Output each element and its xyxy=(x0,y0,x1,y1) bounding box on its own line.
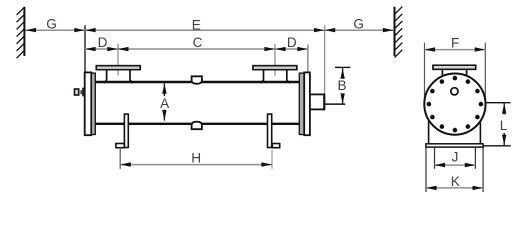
dimension J xyxy=(435,150,476,168)
nozzle N2 flange xyxy=(253,66,297,70)
svg-text:C: C xyxy=(193,35,203,50)
extension line L top xyxy=(486,102,511,104)
bolt holes xyxy=(427,76,484,133)
support leg right xyxy=(268,114,272,147)
left end flange xyxy=(85,72,92,135)
extension line F right xyxy=(484,43,486,102)
drain fitting head xyxy=(75,89,79,95)
tube sheet circle xyxy=(424,74,485,135)
extension line K right xyxy=(482,147,484,192)
coupling lug top xyxy=(192,76,202,84)
dimension F xyxy=(425,35,486,51)
svg-text:D: D xyxy=(287,35,297,50)
svg-text:J: J xyxy=(452,150,459,165)
stub centerline xyxy=(324,103,346,105)
right tube sheet xyxy=(299,73,304,134)
saddle sides end view xyxy=(429,112,481,144)
wall left xyxy=(23,7,25,56)
centerline nozzle N2 xyxy=(274,44,276,76)
dimension A xyxy=(160,83,170,120)
nozzle N2 neck xyxy=(261,70,290,84)
base plate end view xyxy=(426,144,483,147)
extension line L bottom xyxy=(483,145,510,147)
support leg left xyxy=(124,114,128,147)
support foot left xyxy=(116,144,124,148)
svg-text:G: G xyxy=(46,17,57,32)
wall left hatching xyxy=(17,7,25,58)
stub nozzle xyxy=(310,94,324,109)
extension line right stub end xyxy=(324,25,326,94)
extension line H left xyxy=(119,149,121,169)
shell top line xyxy=(96,81,300,83)
support foot right xyxy=(272,144,279,148)
coupling lug bottom xyxy=(192,122,202,130)
extension line J left xyxy=(434,147,436,169)
svg-text:D: D xyxy=(98,35,108,50)
extension line H right xyxy=(271,150,273,169)
wall right hatching xyxy=(395,7,403,58)
nozzle N1 flange xyxy=(96,66,140,70)
centerline nozzle N1 xyxy=(117,44,119,76)
dimension G right xyxy=(325,17,394,33)
dimension D right xyxy=(275,35,308,51)
drain fitting neck xyxy=(81,90,82,94)
dimension E xyxy=(85,18,325,33)
dimension K xyxy=(426,174,483,190)
dimension C xyxy=(118,35,275,51)
svg-text:L: L xyxy=(500,118,508,133)
extension line right flange xyxy=(307,45,309,73)
extension line F left xyxy=(424,43,426,102)
dimension D left xyxy=(85,35,118,51)
end view nozzle neck xyxy=(442,69,466,76)
svg-text:F: F xyxy=(451,35,459,50)
dimension L xyxy=(500,103,508,145)
dimension G left xyxy=(25,17,85,33)
nozzle N1 neck xyxy=(104,70,133,84)
svg-text:H: H xyxy=(191,150,201,165)
end view nozzle flange xyxy=(433,65,476,69)
left tube sheet xyxy=(91,73,95,134)
svg-text:G: G xyxy=(353,17,364,32)
svg-text:E: E xyxy=(192,18,201,33)
vent hole xyxy=(451,88,458,95)
extension line left flange face xyxy=(84,25,86,72)
extension line K left xyxy=(425,147,427,192)
svg-text:K: K xyxy=(451,174,460,189)
extension line J right xyxy=(474,147,476,169)
drain fitting flange xyxy=(82,88,85,97)
dimension H xyxy=(120,150,272,166)
svg-text:A: A xyxy=(160,96,170,111)
shell bottom line xyxy=(96,123,300,125)
wall right xyxy=(394,7,396,56)
right end flange xyxy=(304,72,310,135)
svg-text:B: B xyxy=(337,78,346,93)
dimension B xyxy=(335,67,350,104)
